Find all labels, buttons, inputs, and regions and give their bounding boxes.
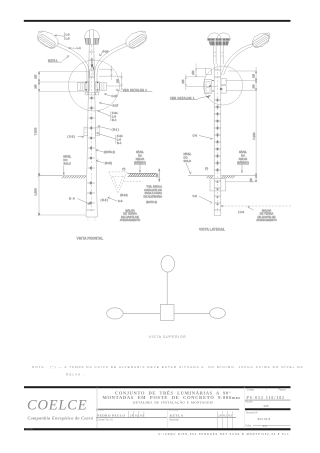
- folha underline: [253, 424, 291, 426]
- front lower clamp fittings: [84, 127, 88, 136]
- svg-text:245: 245: [35, 84, 38, 89]
- svg-text:( C-9: ( C-9: [238, 210, 244, 214]
- front right luminaire head: [126, 31, 147, 48]
- front clamp center plates: [85, 82, 89, 92]
- svg-text:SOLO: SOLO: [184, 159, 191, 163]
- svg-text:B-4: B-4: [112, 118, 117, 122]
- top view west arm wire: [123, 312, 160, 314]
- lateral third luminaire nose: [267, 33, 270, 37]
- title block top thick line: [24, 386, 291, 388]
- codigo underline: [245, 399, 291, 402]
- svg-text:CM-040: CM-040: [25, 428, 34, 430]
- front left luminaire refractor: [37, 33, 57, 49]
- svg-text:VISTA FRONTAL: VISTA FRONTAL: [77, 236, 104, 240]
- vertical divider title/right column: [243, 387, 245, 429]
- lateral bottom dashed leader: [221, 205, 292, 207]
- svg-text:NOTA : (*) — A TAMPA DA CAIXA: NOTA : (*) — A TAMPA DA CAIXA DE ALVENAR…: [32, 365, 304, 369]
- front clamp arrows: [91, 58, 94, 70]
- svg-text:B - 9: B - 9: [69, 197, 75, 201]
- lateral pole center dashes: [217, 64, 219, 213]
- ground hatch solo: [62, 176, 86, 179]
- front pole hand hole: [89, 69, 95, 78]
- lateral pole: [214, 64, 221, 215]
- front right luminaire nose: [141, 31, 146, 33]
- svg-text:Folha: Folha: [245, 426, 251, 428]
- masonry box funnel: [109, 172, 127, 193]
- svg-text:ATERRAMENTO: ATERRAMENTO: [256, 218, 276, 222]
- lateral end-on lamp domes: [208, 33, 231, 40]
- svg-text:L-4: L-4: [77, 46, 81, 50]
- svg-text:S.Junior/ Tec. M.: S.Junior/ Tec. M.: [96, 418, 113, 421]
- svg-text:245: 245: [252, 84, 255, 89]
- svg-text:B-27: B-27: [113, 103, 119, 107]
- right small dim: [99, 72, 123, 90]
- svg-text:NÍVEL: NÍVEL: [184, 152, 192, 156]
- front clamp right bolt block: [100, 83, 107, 90]
- svg-text:150: 150: [35, 74, 38, 79]
- svg-text:DO: DO: [63, 158, 67, 162]
- vertical divider logo/title: [96, 387, 98, 429]
- svg-text:DA: DA: [241, 154, 245, 158]
- svg-text:Desenho N°: Desenho N°: [246, 412, 258, 414]
- svg-text:Pagina: Pagina: [279, 390, 287, 392]
- svg-text:PS-052 116/182: PS-052 116/182: [247, 396, 286, 400]
- upper small dim: [99, 66, 112, 81]
- svg-text:(*): (*): [205, 167, 208, 171]
- malha de terra text lateral: [248, 206, 254, 210]
- front detail circle: [69, 60, 120, 111]
- svg-text:F-34: F-34: [112, 111, 118, 115]
- svg-text:(B-12): (B-12): [120, 193, 128, 197]
- svg-text:NOTA 1: NOTA 1: [48, 58, 58, 62]
- svg-text:ATERRAMENTO: ATERRAMENTO: [120, 218, 140, 222]
- front clamp bottom plate: [85, 92, 99, 95]
- ground line solo: [39, 175, 86, 177]
- vertical divider emitido/verificado: [166, 409, 168, 428]
- front left luminaire head: [37, 31, 58, 48]
- svg-text:Aprovado: Aprovado: [169, 419, 180, 422]
- top view north arm wire: [166, 272, 168, 304]
- svg-text:150: 150: [250, 178, 253, 183]
- lateral clamp fittings right: [221, 79, 226, 85]
- lateral arm curve: [221, 44, 252, 75]
- top view north luminaire: [161, 255, 175, 272]
- svg-text:100: 100: [156, 173, 159, 178]
- svg-text:(NOTA 3): (NOTA 3): [146, 200, 157, 204]
- title block mid divider line: [98, 408, 239, 411]
- lateral dim small upper: [186, 64, 218, 87]
- svg-text:VISTA LATERAL: VISTA LATERAL: [199, 228, 225, 232]
- top view east arm wire: [174, 312, 210, 314]
- front left arm: [56, 43, 90, 91]
- lateral buried base box: [210, 179, 226, 191]
- svg-text:150: 150: [252, 73, 255, 78]
- svg-text:B-4: B-4: [117, 141, 122, 145]
- svg-text:DA: DA: [138, 154, 142, 158]
- verificado underline: [169, 417, 236, 420]
- svg-text:Companhia Energética do Ceará: Companhia Energética do Ceará: [28, 416, 94, 421]
- svg-text:L-3: L-3: [66, 33, 70, 37]
- svg-text:Escala: Escala: [246, 402, 254, 404]
- lateral dim small lower: [185, 74, 187, 90]
- svg-text:150: 150: [117, 78, 120, 83]
- svg-text:RELVA ;: RELVA ;: [66, 372, 85, 376]
- dim 100 right: [158, 169, 160, 183]
- svg-text:RELVA: RELVA: [136, 157, 145, 161]
- svg-text:Verificado: Verificado: [169, 409, 180, 412]
- front left luminaire nose: [38, 31, 43, 33]
- svg-text:( C-8 ): ( C-8 ): [67, 134, 75, 138]
- front clamp left bolt block: [78, 83, 85, 90]
- svg-text:C-15: C-15: [111, 94, 117, 98]
- svg-text:(NOTA 2): (NOTA 2): [104, 150, 115, 154]
- left dim extension lines: [39, 72, 89, 216]
- lateral detail circle: [204, 66, 243, 105]
- lateral pole rungs: [214, 70, 221, 210]
- svg-text:VER DETALHE 1: VER DETALHE 1: [123, 88, 148, 92]
- front pole rungs: [87, 52, 95, 210]
- svg-text:NÍVEL: NÍVEL: [136, 150, 144, 154]
- svg-text:C-9: C-9: [118, 199, 123, 203]
- pole below tip dashes: [88, 217, 95, 221]
- labels F-34 L-6 B-4 bracket: [98, 110, 111, 121]
- left dim chain line: [38, 72, 40, 216]
- svg-text:L-6: L-6: [112, 115, 116, 119]
- emitido date ticks: [129, 411, 144, 418]
- top view east luminaire: [210, 308, 226, 319]
- lateral upper box: [206, 69, 212, 75]
- ground strip relva: [128, 173, 157, 176]
- svg-text:1/3: 1/3: [263, 424, 267, 428]
- svg-text:(B-11): (B-11): [105, 161, 112, 165]
- label L-3 L-8: [55, 33, 65, 41]
- svg-text:245: 245: [182, 79, 185, 84]
- front right luminaire refractor: [128, 33, 148, 49]
- lateral clamp box left: [205, 80, 212, 94]
- svg-text:C-8: C-8: [193, 133, 198, 137]
- svg-text:DE ALVENARIA: DE ALVENARIA: [143, 195, 162, 199]
- top view pole square: [160, 305, 174, 321]
- title block right column thick divider: [245, 408, 291, 410]
- lateral right dim chain: [225, 67, 256, 183]
- label L-4: [68, 47, 76, 49]
- svg-text:P-24: P-24: [103, 49, 109, 53]
- svg-text:052.32.8: 052.32.8: [258, 417, 271, 421]
- svg-text:NÍVEL: NÍVEL: [63, 154, 71, 158]
- ground relva hatch: [129, 174, 156, 177]
- left dim arrows: [38, 72, 40, 216]
- lateral dim arrows: [255, 71, 257, 182]
- front center luminaire clamps: [85, 38, 99, 44]
- svg-text:(MÍNIMO): (MÍNIMO): [237, 161, 249, 165]
- svg-text:SOLO: SOLO: [63, 161, 70, 165]
- svg-text:DETALHES DE INSTALAÇÃO E MONTA: DETALHES DE INSTALAÇÃO E MONTAGEM: [133, 400, 213, 405]
- svg-text:( B-1 ): ( B-1 ): [112, 127, 120, 131]
- svg-text:(MÍNIMO): (MÍNIMO): [134, 161, 146, 165]
- svg-text:MONTADAS EM POSTE DE CONCRETO: MONTADAS EM POSTE DE CONCRETO 9.000mm: [103, 395, 241, 400]
- svg-text:20 02 03: 20 02 03: [130, 414, 144, 418]
- svg-text:(*): (*): [122, 167, 125, 171]
- front pole inner dashes: [91, 45, 93, 213]
- front right arm: [95, 43, 129, 91]
- svg-text:KEYLA: KEYLA: [170, 414, 184, 418]
- lateral third luminaire refractor: [252, 33, 271, 49]
- svg-text:NÍVEL: NÍVEL: [239, 150, 247, 154]
- lateral stem left: [214, 46, 217, 64]
- svg-text:150: 150: [192, 70, 195, 75]
- svg-text:DO: DO: [184, 155, 188, 159]
- svg-text:L-8: L-8: [66, 37, 70, 41]
- label P-24: [100, 50, 104, 56]
- lateral end-on clamp band: [208, 38, 230, 45]
- svg-text:( B-5 ): ( B-5 ): [101, 198, 109, 202]
- lateral ground line: [188, 175, 257, 177]
- front pole: [86, 30, 97, 217]
- top view west luminaire: [107, 308, 123, 319]
- front center luminaire circle: [85, 30, 100, 45]
- svg-text:20 02 03: 20 02 03: [218, 414, 232, 418]
- svg-text:VISTA SUPERIOR: VISTA SUPERIOR: [149, 335, 187, 339]
- svg-text:1.500: 1.500: [33, 188, 37, 196]
- lateral ground hatch: [207, 176, 235, 179]
- lateral stem right: [221, 46, 224, 64]
- svg-text:C-3: C-3: [193, 194, 198, 198]
- lateral third luminaire head: [252, 33, 269, 47]
- svg-text:S/E: S/E: [264, 404, 270, 408]
- svg-text:7.500: 7.500: [33, 127, 37, 135]
- lateral stem rungs: [214, 53, 224, 57]
- svg-text:Codigo: Codigo: [247, 390, 255, 392]
- svg-text:F-34: F-34: [117, 134, 123, 138]
- svg-text:C:\ARQU B\PS-052-PADROES DET F: C:\ARQU B\PS-052-PADROES DET FASE B MONT…: [159, 433, 290, 436]
- svg-text:Emitido: Emitido: [96, 409, 104, 412]
- sheet top border: [24, 20, 291, 22]
- funnel leader dashed: [124, 180, 142, 182]
- svg-text:PEDRO PAULO: PEDRO PAULO: [97, 414, 125, 418]
- svg-text:RELVA: RELVA: [239, 157, 248, 161]
- svg-text:7.200: 7.200: [252, 132, 256, 140]
- front clamp bolt heads: [86, 83, 99, 90]
- svg-text:L-6: L-6: [117, 138, 121, 142]
- svg-text:COELCE: COELCE: [27, 397, 87, 413]
- labels F-34 L-6 lower: [97, 132, 116, 143]
- emitido underline: [96, 417, 167, 420]
- verificado date ticks: [217, 411, 232, 428]
- svg-text:VER DETALHE 1: VER DETALHE 1: [170, 96, 195, 100]
- title block bottom thick line: [24, 428, 291, 430]
